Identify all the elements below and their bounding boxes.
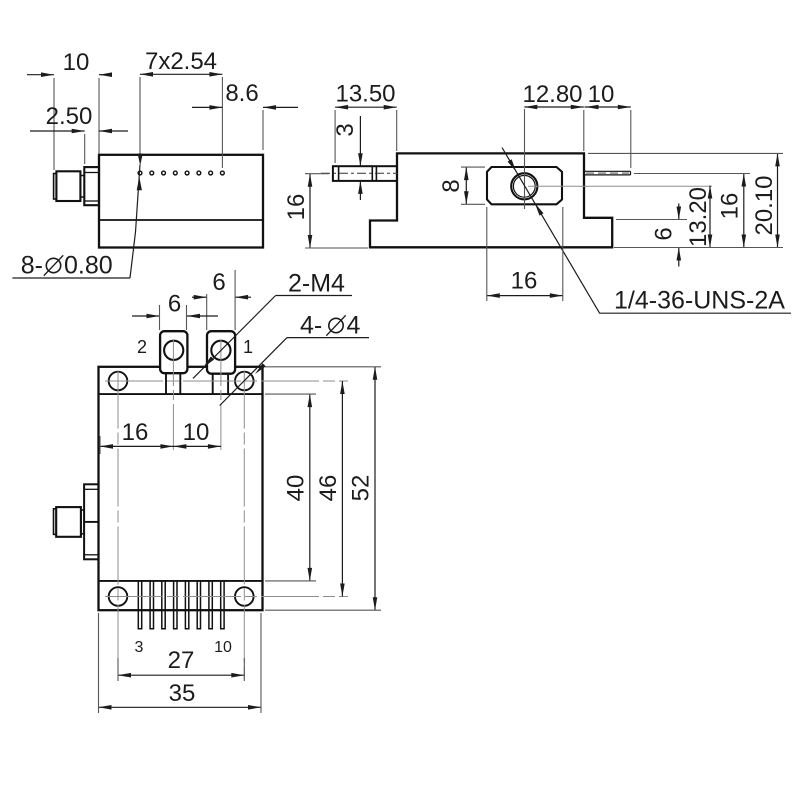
dimension 16 (side right) lines (743, 174, 745, 248)
dimension 40 lines (309, 394, 311, 581)
svg-text:10: 10 (183, 419, 210, 446)
side view: stub cap line (338, 166, 340, 181)
side view: hole vertical centerline (524, 109, 526, 209)
front view: hole bottom-right (235, 587, 254, 606)
front view: hole top-left (4-&#8960;4) (109, 372, 128, 391)
svg-text:20.10: 20.10 (751, 175, 778, 235)
front view: hole top-right (235, 372, 254, 391)
svg-text:8-: 8- (21, 252, 43, 280)
dimension 3 lines (359, 116, 361, 166)
dimension 2.50 lines (30, 130, 85, 132)
top view: flange inner line upper (84, 172, 99, 174)
dimension 16 (side left) lines (309, 174, 311, 248)
dimension 52 lines (374, 367, 376, 610)
top view: SMA connector nut (56, 171, 80, 201)
svg-text:1/4-36-UNS-2A: 1/4-36-UNS-2A (614, 287, 785, 315)
dimension 13.20 lines (709, 186, 711, 248)
front view: bottom band line (99, 580, 263, 582)
front view: body outline (99, 367, 263, 610)
dimension 6 (lug2) lines (132, 315, 160, 317)
svg-text:10: 10 (214, 639, 232, 656)
svg-text:35: 35 (169, 680, 196, 707)
svg-text:27: 27 (168, 647, 195, 674)
dimension 12.80 lines (524, 106, 584, 108)
dimension 16 (under boss) lines (487, 295, 563, 297)
dimension 20.10 lines (777, 153, 779, 247)
side view: threaded stub (333, 166, 397, 181)
svg-text:4-: 4- (300, 312, 322, 340)
front view: lug 1 centerline (220, 340, 222, 452)
dimension 46 lines (341, 381, 343, 597)
svg-text:46: 46 (315, 475, 342, 502)
side view: stub centerline (321, 172, 398, 174)
top view: flange inner line lower (84, 200, 99, 202)
front view: terminal lug 1 (207, 331, 235, 374)
side view: hole horizontal centerline (528, 185, 712, 187)
front view: bottom holes centerline (105, 596, 348, 598)
side view: boss with chamfers (487, 167, 562, 204)
top view: SMA connector flange (84, 167, 99, 205)
svg-text:16: 16 (511, 268, 538, 295)
svg-text:3: 3 (332, 123, 359, 136)
side view: right pin dashes (586, 172, 629, 174)
top view: SMA connector end cap (54, 174, 57, 200)
dimension 10 (side view) lines (585, 106, 631, 108)
svg-text:13.50: 13.50 (335, 81, 395, 108)
front view: SMA neck (81, 510, 84, 534)
front view: lug 1 neck (212, 374, 214, 394)
label 8-&#8960;0.80 leader (12, 277, 130, 279)
svg-text:10: 10 (588, 81, 615, 108)
dimension 13.50 lines (335, 106, 397, 108)
front view: 8 pins (138, 581, 224, 629)
svg-text:52: 52 (348, 475, 375, 502)
side view: stub thread line 1 (371, 166, 373, 181)
dimension 16 (front) lines (100, 445, 173, 447)
svg-text:12.80: 12.80 (522, 81, 582, 108)
front view: lug 2 neck (165, 373, 167, 394)
side view: threaded hole inner circle (513, 175, 535, 197)
dimension 10 (front) lines (173, 445, 221, 447)
front view: SMA flange (84, 484, 98, 559)
svg-text:10: 10 (63, 49, 90, 76)
dimension 27 lines (118, 674, 244, 676)
dimension 8 lines (465, 167, 467, 204)
leader 4-&#8960;4 (220, 338, 287, 406)
top view: body step line (99, 219, 263, 221)
svg-text:6: 6 (168, 291, 181, 318)
side view: threaded hole outer circle (511, 173, 537, 199)
svg-text:8: 8 (438, 179, 465, 192)
front view: SMA nut (56, 507, 81, 537)
front view: terminal lug 2 (160, 331, 187, 373)
svg-text:3: 3 (135, 639, 144, 656)
top view: 8 pin holes (8-&#8960;0.80) (138, 171, 224, 175)
front view: lug 2 centerline (172, 340, 174, 452)
leader 2-M4 (193, 296, 276, 379)
side view: right pin (584, 170, 631, 172)
side view: stub thread line 2 (375, 166, 377, 181)
front view: right holes centerline (243, 371, 245, 681)
front view: top band line (99, 393, 263, 395)
svg-text:2: 2 (137, 337, 147, 357)
top view: SMA connector neck (80, 176, 84, 198)
svg-text:16: 16 (283, 194, 310, 221)
dimension 6 (side view) lines (678, 204, 680, 220)
svg-text:2-M4: 2-M4 (288, 270, 345, 298)
side view: body outline (370, 153, 612, 247)
front view: SMA end cap (54, 509, 57, 535)
dimension 6 (lug1) lines (192, 296, 207, 298)
front view: SMA flange inner lines (84, 488, 98, 490)
front view: hole bottom-left (109, 587, 128, 606)
front view: left holes centerline (117, 371, 119, 681)
dimension 10 (top view) lines (27, 74, 54, 76)
svg-text:0.80: 0.80 (64, 252, 113, 280)
svg-text:40: 40 (283, 475, 310, 502)
svg-text:7x2.54: 7x2.54 (145, 48, 217, 75)
svg-text:16: 16 (717, 193, 744, 220)
dimension 35 lines (99, 706, 262, 708)
front view: lug 1 hole (211, 341, 230, 360)
svg-text:8.6: 8.6 (225, 80, 258, 107)
svg-text:2.50: 2.50 (46, 103, 93, 130)
dimension 7x2.54 lines (140, 73, 222, 75)
svg-text:16: 16 (122, 419, 149, 446)
svg-text:13.20: 13.20 (685, 187, 712, 247)
top view: module body outline (99, 155, 263, 248)
dimension 8.6 lines (192, 106, 222, 108)
front view: top holes centerline (105, 380, 348, 382)
svg-text:4: 4 (347, 312, 361, 340)
svg-text:6: 6 (651, 227, 678, 240)
leader 1/4-36-UNS-2A line (502, 148, 791, 314)
front view: lug 2 hole (164, 341, 183, 360)
svg-text:1: 1 (243, 337, 253, 357)
svg-text:6: 6 (212, 269, 225, 296)
